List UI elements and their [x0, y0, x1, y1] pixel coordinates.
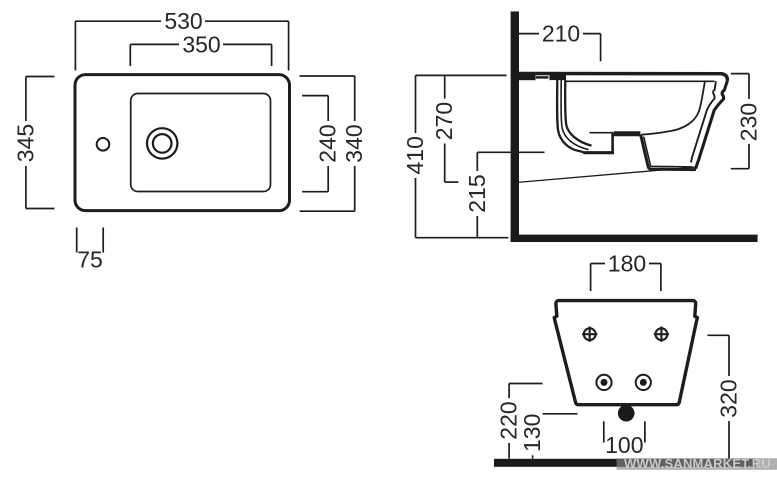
svg-text:100: 100	[605, 432, 643, 458]
svg-text:240: 240	[315, 124, 341, 162]
back view body outline	[554, 301, 697, 405]
top view: faucet hole	[97, 138, 110, 151]
dimension 350 (inner width)	[130, 44, 271, 66]
floor (side view, thick bar)	[511, 235, 758, 242]
dimension 220 (fixing hole height)	[509, 384, 542, 459]
svg-text:220: 220	[496, 401, 522, 439]
dimension 240 (inner depth, right)	[302, 96, 328, 192]
wall (thick bar)	[511, 11, 519, 242]
bowl inner curve	[642, 81, 706, 134]
fixing hole left (donut)	[596, 375, 611, 390]
sump shelf thin line	[590, 132, 614, 134]
top view: outer rim of bidet	[75, 75, 290, 211]
svg-text:410: 410	[402, 136, 428, 174]
dimension 210 (projection)	[519, 34, 601, 62]
svg-text:530: 530	[164, 8, 202, 34]
drain outlet (filled circle)	[618, 405, 635, 422]
dimension 345 (overall depth, left)	[26, 77, 55, 209]
sump top thick line	[614, 131, 641, 136]
drain trap inner line	[644, 137, 693, 167]
bowl inner top line under rim	[566, 80, 715, 82]
svg-text:130: 130	[519, 414, 545, 452]
dimension 320 (height, right)	[707, 335, 729, 461]
svg-text:180: 180	[608, 251, 646, 277]
dimension 340 (outer depth, right)	[300, 76, 355, 211]
floor (back view, thick bar)	[494, 459, 756, 467]
mounting hole symbol left	[582, 327, 597, 342]
right inner edge (ceramic thickness)	[691, 81, 716, 162]
top view: drain outer circle	[147, 128, 177, 158]
svg-text:WWW.SANMARKET.RU: WWW.SANMARKET.RU	[624, 456, 771, 471]
mounting block	[550, 73, 567, 80]
foot / sump U right side	[611, 133, 614, 154]
dimension 410 (wall height)	[416, 75, 509, 237]
ceramic back wall section: triple curve	[557, 80, 585, 154]
drain trap outline	[641, 135, 696, 170]
dimension 75 (faucet offset, bottom left)	[77, 228, 104, 253]
dimension 180 (hole spacing)	[591, 264, 661, 292]
top view: drain inner circle	[153, 134, 172, 153]
svg-text:230: 230	[736, 103, 762, 141]
dimension 530 (overall width, top)	[75, 21, 288, 70]
top view: inner basin edge	[131, 94, 271, 192]
dimension 130 (drain height)	[533, 414, 578, 459]
svg-text:345: 345	[13, 124, 39, 162]
watermark bar	[617, 458, 777, 470]
mounting hole symbol right	[654, 327, 669, 342]
svg-text:270: 270	[431, 102, 457, 140]
bidet rim top line	[519, 74, 727, 81]
svg-text:340: 340	[341, 124, 367, 162]
dimension 215 (floor to foot)	[477, 152, 544, 237]
drain axis diagonal line	[518, 167, 697, 182]
rim anchor at wall	[519, 75, 536, 80]
fixing hole right (donut)	[636, 375, 651, 390]
right outer edge with lip notch	[696, 81, 728, 169]
svg-text:75: 75	[77, 247, 103, 273]
svg-text:215: 215	[464, 174, 490, 212]
dimension 230 (body height, right)	[731, 74, 749, 169]
svg-text:210: 210	[542, 21, 580, 47]
dimension 270 (rim to drain axis)	[445, 75, 459, 182]
foot / sump U bottom	[584, 151, 614, 154]
svg-text:350: 350	[182, 31, 220, 57]
dimension 100 (hole spacing bottom)	[604, 421, 645, 442]
mounting bracket dash	[536, 76, 549, 79]
svg-text:320: 320	[716, 379, 742, 417]
